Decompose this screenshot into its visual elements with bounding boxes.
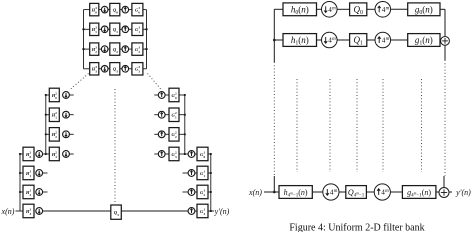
svg-text:h0(n): h0(n) <box>291 4 309 16</box>
svg-text:Figure 4: Uniform 2-D filter b: Figure 4: Uniform 2-D filter bank <box>289 223 424 233</box>
svg-text:m: m <box>386 37 390 42</box>
svg-text:y′(n): y′(n) <box>455 188 471 197</box>
svg-text:m: m <box>385 189 389 194</box>
svg-text:g0(n): g0(n) <box>415 4 433 16</box>
svg-text:y′(n): y′(n) <box>214 207 230 216</box>
svg-text:x(n): x(n) <box>248 188 262 197</box>
svg-text:x(n): x(n) <box>1 207 15 216</box>
svg-text:m: m <box>332 37 336 42</box>
svg-text:m: m <box>332 7 336 12</box>
svg-text:m: m <box>334 189 338 194</box>
svg-text:h1(n): h1(n) <box>291 35 309 47</box>
svg-text:g1(n): g1(n) <box>415 35 433 47</box>
svg-text:m: m <box>386 7 390 12</box>
